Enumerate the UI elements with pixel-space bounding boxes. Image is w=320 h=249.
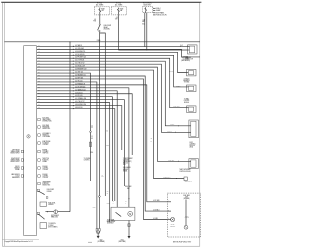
ground G402 text <box>97 240 105 244</box>
pin number 14 <box>38 83 40 85</box>
svg-text:CRANKSHAFT: CRANKSHAFT <box>42 181 51 184</box>
wire label 0.5 PNK/BLK 39 <box>75 83 85 85</box>
wire label 0.5 LT GRN 24 <box>75 60 84 62</box>
wire arrow pin 20 <box>73 102 74 104</box>
wire label 0.5 WHT 821 <box>75 77 83 79</box>
pin box left KNOCK <box>21 167 23 169</box>
svg-text:EVAP PURGE: EVAP PURGE <box>42 140 50 143</box>
wire arrow pin 8 <box>73 66 74 68</box>
pin number 3 <box>38 51 40 53</box>
wire label 0.5 GRY 120 <box>75 72 83 74</box>
svg-text:S310: S310 <box>90 152 93 154</box>
svg-text:0.5 PPL: 0.5 PPL <box>170 124 174 126</box>
wire pin 14 0.5 PNK/BLK 39 <box>37 85 168 202</box>
pin text NOT USED <box>42 118 52 123</box>
wire pin 5 0.5 PPL/WHT 121 <box>37 58 187 107</box>
wire label off-page <box>183 55 188 57</box>
wire from fuse F3 second <box>146 13 148 50</box>
svg-text:0.5 DK GRN 465: 0.5 DK GRN 465 <box>75 86 85 88</box>
pin box switch 2 <box>37 212 39 214</box>
wire arrow pin 7 <box>73 63 74 65</box>
svg-text:SENSOR INPUT: SENSOR INPUT <box>10 153 19 155</box>
pin number 2 <box>38 48 40 50</box>
svg-text:0.8 BLK/WHT 450: 0.8 BLK/WHT 450 <box>75 104 86 106</box>
svg-text:0.5 LT GRN: 0.5 LT GRN <box>153 200 159 202</box>
pin text HO2S BANK 1 <box>42 132 50 138</box>
pin box right CRANKSHAFT <box>38 182 40 184</box>
wire label BCM A <box>170 124 174 126</box>
svg-text:0.5 LT BLU 722: 0.5 LT BLU 722 <box>75 63 84 65</box>
svg-text:DISTRIBUTION): DISTRIBUTION) <box>42 121 52 123</box>
fuel pump label <box>107 219 115 224</box>
fuse F3 callout tick 2 <box>153 10 155 12</box>
pin number 21 <box>38 104 40 106</box>
pin text FUEL TANK <box>42 124 50 130</box>
wire arrow pin 9 <box>73 69 74 71</box>
wire label to cluster <box>169 70 173 73</box>
label HOT AT ALL TIMES (left) <box>96 2 103 7</box>
wire label F3 color <box>142 20 145 24</box>
svg-text:0.5 TAN/BLK 464: 0.5 TAN/BLK 464 <box>75 88 86 91</box>
pin text EVAP PURGE <box>42 140 50 146</box>
svg-text:HOT IN RUN,: HOT IN RUN, <box>143 3 152 5</box>
connector in motor ground wire <box>128 224 130 227</box>
wire label F2 GRY <box>115 17 118 21</box>
ground arrow G403 <box>128 236 131 239</box>
fuel sender bottom label <box>173 241 192 243</box>
pin number 10 <box>38 72 40 74</box>
pin box right HO2S BANK 1 <box>38 134 40 136</box>
pin box right ENGINE <box>38 150 40 152</box>
pin text ENGINE <box>42 150 48 155</box>
wire from fuse F3 <box>144 13 146 47</box>
junction bus drop <box>69 41 70 42</box>
junction fuse F3 wire <box>144 46 147 51</box>
pin box right EVAP PURGE <box>38 142 40 144</box>
pin box switch 1 <box>37 189 39 191</box>
ring connector on cruise wire <box>90 131 92 133</box>
wire pin 13 0.5 YEL 410 <box>37 82 97 229</box>
wire arrow pin 11 <box>73 75 74 77</box>
connector C205 text <box>185 180 193 183</box>
switch inside PCM 1 <box>38 191 44 194</box>
wire relay output to ground pair <box>98 42 100 229</box>
svg-text:HO2S BANK 1: HO2S BANK 1 <box>42 132 50 135</box>
svg-text:0.5 YEL 410: 0.5 YEL 410 <box>75 80 83 82</box>
wire pin 9 0.5 BRN/WHT 419 <box>37 70 184 178</box>
splice label S310 <box>90 152 93 154</box>
component theft deterrent <box>189 159 199 169</box>
junction ground wire <box>47 211 48 212</box>
driver box <box>40 202 47 206</box>
wire from switch S1 to bus <box>98 32 100 42</box>
sender pin stub 2 <box>167 210 171 212</box>
relay box lower <box>40 223 47 229</box>
wire from fuse F1 <box>99 15 101 24</box>
svg-text:MOTOR: MOTOR <box>185 217 190 219</box>
svg-text:S214: S214 <box>142 23 145 25</box>
pin box right IDLE AIR <box>38 175 40 177</box>
wire label 0.5 TAN 33 <box>75 44 82 47</box>
wire label 0.8 BLK/WHT 450 <box>75 104 86 106</box>
svg-text:CONTROL: CONTROL <box>84 160 90 162</box>
wire below G402 connectors <box>97 231 100 236</box>
svg-text:COIL B HI: COIL B HI <box>42 177 48 179</box>
label splice S412 <box>107 202 110 204</box>
switch S1 label <box>104 25 112 30</box>
svg-text:Copyright 2003 Mitchell Repair: Copyright 2003 Mitchell Repair Informati… <box>5 240 33 243</box>
pin text switch 1 <box>47 189 54 193</box>
svg-text:S331: S331 <box>123 164 126 166</box>
wire arrow pin 17 <box>73 93 74 95</box>
pin box right IDLE AIR <box>38 167 40 169</box>
pin box 2 lower <box>46 197 48 199</box>
label HOT AT ALL TIMES (right) <box>115 2 122 7</box>
connector C210 text <box>84 158 91 162</box>
fuel pump title above <box>125 185 132 190</box>
wire arrow pin 2 <box>73 49 74 51</box>
sender pin stub 1 <box>167 201 171 203</box>
svg-text:0.5 BLK/WHT 51: 0.5 BLK/WHT 51 <box>75 51 85 53</box>
wire pin 2 0.5 ORN 1049 <box>37 49 200 57</box>
label S331 on vertical <box>106 145 109 147</box>
page frame <box>2 3 199 247</box>
component HVAC label <box>184 98 190 104</box>
wire label 0.5 DK GRN 35 <box>75 54 85 56</box>
fuel pump switch dots <box>115 212 121 217</box>
footer divider <box>2 239 39 241</box>
svg-text:(BCM): (BCM) <box>190 147 194 149</box>
component fuel pump box <box>111 207 135 220</box>
splice block text <box>123 158 133 166</box>
pin text IDLE AIR <box>42 173 48 179</box>
pin number 6 <box>38 60 40 62</box>
svg-text:TEMP SIG: TEMP SIG <box>42 153 48 155</box>
ground shield symbol <box>54 210 58 214</box>
svg-text:S412: S412 <box>93 207 96 209</box>
svg-text:0.5 ORN: 0.5 ORN <box>153 218 158 220</box>
svg-text:0.5 ORN/BLK 434: 0.5 ORN/BLK 434 <box>75 98 86 100</box>
svg-text:(SENDER): (SENDER) <box>184 198 190 200</box>
connector C210 labels <box>91 126 93 130</box>
component HVAC <box>186 106 196 113</box>
wire label 0.5 TAN/BLK 464 <box>75 88 86 91</box>
pin text left MAP SENSOR <box>11 173 19 179</box>
svg-text:BLK: BLK <box>102 176 104 178</box>
fuse F2 <box>118 8 120 15</box>
label 57 on bundle <box>151 141 153 143</box>
component DLC text below <box>185 56 193 61</box>
wire label to radio <box>176 85 181 87</box>
svg-text:0.5 PPL 420: 0.5 PPL 420 <box>75 95 83 97</box>
wire label AC2 <box>153 210 159 212</box>
pin text IDLE AIR <box>42 165 48 171</box>
svg-text:FUEL TANK: FUEL TANK <box>42 124 49 127</box>
pin box left RIGHT FRONT <box>21 159 23 161</box>
component radio label <box>183 77 190 83</box>
svg-text:MAP SENSOR: MAP SENSOR <box>11 173 19 176</box>
wire label 0.5 ORN/BLK 434 <box>75 98 86 100</box>
svg-text:GRY: GRY <box>115 18 118 20</box>
switch S1 lower contact <box>99 30 100 31</box>
wire to sensor 2 <box>185 200 187 226</box>
pin number 12 <box>38 78 40 80</box>
svg-text:SENSOR: SENSOR <box>170 226 175 228</box>
svg-text:SENSOR SIG: SENSOR SIG <box>42 128 50 130</box>
wire pin 4 0.5 DK GRN 35 <box>37 55 187 87</box>
pin number 19 <box>38 98 40 100</box>
connector C210 labels 2 <box>91 136 93 140</box>
wire label 0.5 LT BLU 717 <box>75 101 84 103</box>
splice dot BCM A <box>178 125 179 126</box>
svg-text:SYSTEM): SYSTEM) <box>184 82 190 84</box>
svg-text:0.5 DK GRN: 0.5 DK GRN <box>173 106 180 108</box>
footer copyright text <box>5 240 33 243</box>
pin box right THROTTLE <box>38 159 40 161</box>
svg-text:0.5 WHT: 0.5 WHT <box>167 131 172 133</box>
label S412 left pair <box>93 207 96 209</box>
svg-text:0.5 WHT 821: 0.5 WHT 821 <box>75 77 83 79</box>
component instrument cluster label <box>181 57 190 62</box>
wire pin 11 0.5 RED/BLK 131 <box>37 76 168 211</box>
svg-text:MODULE: MODULE <box>184 102 189 104</box>
pin number 16 <box>38 89 40 91</box>
svg-text:0.5 LT BLU 717: 0.5 LT BLU 717 <box>75 101 84 103</box>
label C2 45 on vertical <box>106 130 108 133</box>
component BCM <box>189 120 199 138</box>
fuse F3 callout text 3 <box>156 11 165 14</box>
fuse block box 2 (dashed) <box>111 7 126 15</box>
wire label 0.5 RED/BLK 131 <box>75 75 86 77</box>
component DLC label <box>180 45 183 47</box>
pin box right FUEL TANK <box>38 126 40 128</box>
pin text CRANKSHAFT <box>42 181 51 187</box>
fuse block box 3 (dashed) <box>143 6 153 12</box>
switch 2 contact dot <box>43 217 46 220</box>
splice block text 2 <box>123 166 131 172</box>
wire pin 7 0.5 LT BLU 722 <box>37 64 189 132</box>
switch inside PCM 2 <box>38 214 44 219</box>
svg-text:S412: S412 <box>107 202 110 204</box>
switch S1 blade <box>98 25 100 30</box>
fuse F3 <box>145 7 147 12</box>
wire pin 20 0.5 LT BLU 717 <box>37 103 110 222</box>
wire label BCM B <box>167 131 172 133</box>
svg-text:0.5 ORN 1049: 0.5 ORN 1049 <box>75 48 84 50</box>
svg-text:CONNECTOR: CONNECTOR <box>185 59 193 61</box>
connector in G402 wire A <box>96 229 98 232</box>
pin text left LEFT FRONT <box>10 150 19 155</box>
fuse F3 callout tick 1 <box>153 7 155 9</box>
svg-text:CONTROL: CONTROL <box>42 144 48 146</box>
wire label 0.8 BLK 550 <box>75 107 83 109</box>
svg-text:0.5 RED/BLK 131: 0.5 RED/BLK 131 <box>75 75 86 77</box>
label C2 on bundle <box>151 138 153 140</box>
wire arrow pin 18 <box>73 96 74 98</box>
wire label C205 <box>163 177 171 179</box>
junction on long bus wire <box>99 41 100 42</box>
wire arrow pin 5 <box>73 57 74 59</box>
wire pin 16 0.5 TAN/BLK 464 <box>37 91 118 207</box>
svg-text:(IN UHJB): (IN UHJB) <box>104 29 110 31</box>
svg-text:REFERENCE: REFERENCE <box>12 177 20 179</box>
svg-text:SENSOR: SENSOR <box>48 204 53 206</box>
pin box left LEFT FRONT <box>21 150 23 152</box>
pin number 8 <box>38 66 40 68</box>
sender pin label 2 <box>168 209 169 211</box>
DLC wire label 2 <box>181 49 182 51</box>
pin box left MAP SENSOR <box>21 175 23 177</box>
svg-text:0.5 LT GRN 24: 0.5 LT GRN 24 <box>75 60 84 62</box>
motor entry label 1 <box>113 201 115 204</box>
svg-text:C: C <box>168 218 169 220</box>
DLC wire label 1 <box>180 46 182 48</box>
pin number 20 <box>38 101 40 103</box>
pin number 7 <box>38 63 40 65</box>
ground arrow G402 <box>97 236 100 239</box>
fuse F3 callout text 4 <box>156 15 167 17</box>
wire pin 18 0.5 PPL 420 <box>37 97 113 201</box>
fuse F1 value 15A <box>101 8 105 12</box>
wire ground run <box>45 211 70 213</box>
wire arrow pin 3 <box>73 51 74 53</box>
sender pin label 3 <box>168 218 169 220</box>
label 0.8 BLK on relay wire <box>102 175 104 178</box>
svg-text:0.5 ORN: 0.5 ORN <box>183 55 188 57</box>
sensor circle 1 text <box>170 224 175 228</box>
svg-text:FUEL TANK: FUEL TANK <box>125 185 132 188</box>
svg-text:IDLE AIR: IDLE AIR <box>42 173 47 176</box>
ring connector on relay wire <box>99 196 101 198</box>
wire arrow pin 21 <box>73 105 74 107</box>
wire label 0.5 ORN 1049 <box>75 48 84 50</box>
sender pin label 1 <box>168 199 169 202</box>
sensor text block 2 <box>185 216 190 220</box>
pin text left KNOCK <box>14 166 20 171</box>
wire arrow pin 22 <box>73 108 74 110</box>
module PCM (powertrain control module) C1 <box>23 46 36 236</box>
svg-text:0.5 DK BLU 229: 0.5 DK BLU 229 <box>75 66 85 68</box>
wire arrow pin 10 <box>73 72 74 74</box>
fuel pump switch <box>116 213 121 217</box>
wire fuse F2 to DLC <box>118 49 187 51</box>
wire arrow pin 1 <box>73 46 74 48</box>
footer tick <box>88 241 92 243</box>
pin number 18 <box>38 95 40 97</box>
svg-text:S331: S331 <box>106 145 109 147</box>
pin number 17 <box>38 92 40 94</box>
label on wire C3 31 <box>107 191 109 195</box>
svg-text:0.5 BRN/WHT: 0.5 BRN/WHT <box>163 177 171 179</box>
wire pin 8 0.5 DK BLU 229 <box>37 67 189 161</box>
svg-text:PNK: PNK <box>93 21 96 23</box>
wire arrow pin 14 <box>73 84 74 86</box>
pin number 1 <box>38 45 39 47</box>
component BCM label <box>190 142 196 149</box>
component radio <box>186 85 196 92</box>
wire label AC3 <box>153 218 158 220</box>
wire pin 22 0.8 BLK 550 <box>37 109 115 201</box>
pin text left RIGHT FRONT <box>10 158 19 163</box>
wire label AC1 <box>153 200 159 202</box>
wire pin 1 0.5 TAN 33 <box>37 45 188 47</box>
wire arrow pin 12 <box>73 78 74 80</box>
svg-text:0.8 BLK 550: 0.8 BLK 550 <box>75 107 83 109</box>
wire label 0.5 DK BLU 229 <box>75 66 85 68</box>
motor entry label 2 <box>125 201 127 204</box>
svg-text:0.5 PPL/WHT 121: 0.5 PPL/WHT 121 <box>75 57 86 59</box>
svg-text:M: M <box>129 213 131 216</box>
pin number 15 <box>38 86 40 88</box>
connector C205 <box>184 177 187 181</box>
svg-text:FUSE BLOCK (IP): FUSE BLOCK (IP) <box>156 15 167 17</box>
svg-text:DRIVER: DRIVER <box>47 191 52 193</box>
inline connector C210 <box>90 142 92 146</box>
wire pin 3 0.5 BLK/WHT 51 <box>37 52 187 72</box>
wire arrow pin 13 <box>73 81 74 83</box>
component instrument cluster <box>186 69 196 76</box>
bus wire label RED <box>97 40 101 42</box>
svg-text:TO RADIO: TO RADIO <box>184 77 190 80</box>
wire pin 12 0.5 WHT 821 <box>37 79 168 220</box>
wire pin 15 0.5 DK GRN 465 <box>37 88 129 207</box>
wire label 0.5 PPL 420 <box>75 95 83 97</box>
ground G403 text <box>118 240 126 244</box>
svg-text:SENSOR SIG: SENSOR SIG <box>42 185 50 187</box>
wire pin 10 0.5 GRY 120 <box>37 73 91 181</box>
wire label theft <box>168 160 174 162</box>
svg-text:SEE FUEL PUMP CIRCUIT TEST: SEE FUEL PUMP CIRCUIT TEST <box>173 241 192 243</box>
wire page-wide RED bus <box>5 41 201 43</box>
wire arrow pin 16 <box>73 90 74 92</box>
wire relay output 2 <box>100 33 105 196</box>
svg-text:BLK: BLK <box>107 221 109 223</box>
junction motor feed <box>128 198 129 199</box>
wire label 0.5 LT BLU 722 <box>75 63 84 65</box>
wire pin 19 0.5 ORN/BLK 434 <box>37 100 125 186</box>
svg-text:FUEL TANK: FUEL TANK <box>183 194 190 197</box>
label HOT IN RUN <box>143 3 152 7</box>
svg-text:0.5 DK GRN 35: 0.5 DK GRN 35 <box>75 54 85 56</box>
svg-text:UNIT: UNIT <box>127 188 130 190</box>
wire label 0.5 BLK 451 <box>75 92 83 94</box>
svg-text:FUSE 4: FUSE 4 <box>156 8 161 10</box>
switch S1 contact <box>99 24 100 25</box>
fuse F3 callout tick 3 <box>153 12 155 14</box>
fuel sender title <box>183 194 190 200</box>
switch 1 contact dot <box>43 193 46 196</box>
wire label 0.5 PPL/WHT 121 <box>75 57 86 59</box>
pin number 9 <box>38 69 40 71</box>
pin number 5 <box>38 57 40 59</box>
svg-text:0.5 BRN/WHT 419: 0.5 BRN/WHT 419 <box>75 69 86 71</box>
svg-text:TO HVAC: TO HVAC <box>184 98 189 101</box>
svg-text:0.5 PNK/BLK 39: 0.5 PNK/BLK 39 <box>75 83 85 85</box>
wire pin 6 0.5 LT GRN 24 <box>37 61 189 126</box>
fuse F3 callout tick 4 <box>153 14 155 16</box>
wire label PNK <box>93 19 96 23</box>
wire pin 21 0.8 BLK/WHT 450 <box>37 106 122 150</box>
sensor circle 1 <box>170 217 174 221</box>
sender pin stub 3 <box>167 219 171 221</box>
driver box text <box>48 203 56 207</box>
wire arrow pin 4 <box>73 54 74 56</box>
svg-text:IDLE AIR: IDLE AIR <box>42 165 47 168</box>
wire pin 17 0.5 BLK 451 <box>37 94 133 155</box>
wire arrow pin 6 <box>73 60 74 62</box>
svg-text:0.5 DK BLU: 0.5 DK BLU <box>168 160 174 162</box>
pin number 22 <box>38 107 40 109</box>
